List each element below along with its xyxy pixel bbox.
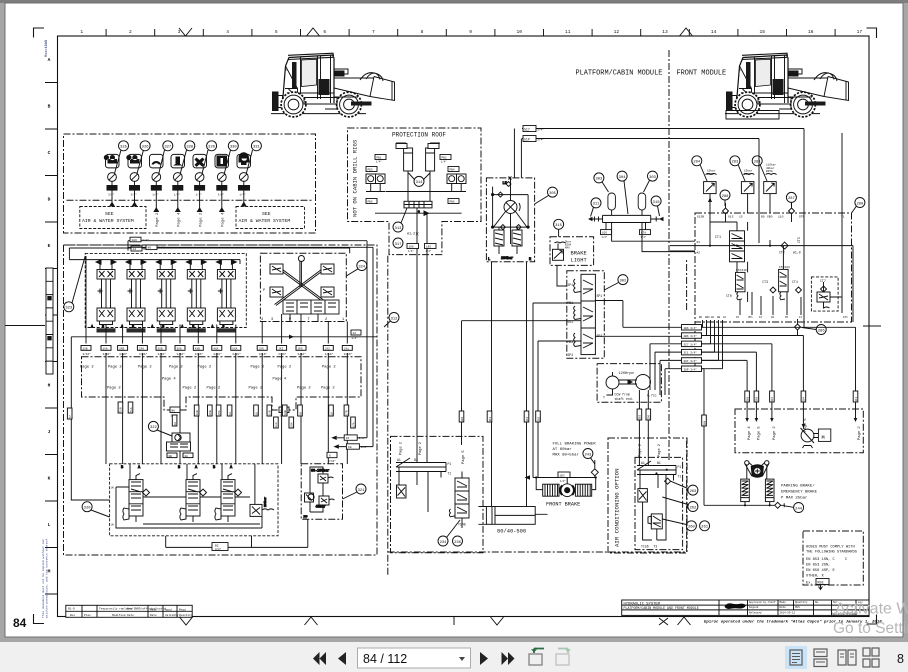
svg-text:G1: G1 [723, 316, 727, 319]
svg-text:305: 305 [756, 396, 759, 401]
svg-text:12: 12 [353, 332, 357, 335]
svg-text:Validity: Validity [165, 613, 179, 617]
svg-text:330: 330 [230, 146, 238, 150]
rotated hose labels column group [67, 402, 355, 428]
svg-text:186: 186 [132, 239, 138, 242]
svg-text:G15: G15 [728, 216, 734, 219]
svg-text:P: P [263, 289, 265, 293]
brake manifold [533, 478, 597, 490]
svg-text:F5Y203: F5Y203 [779, 266, 790, 269]
balloon 323 [64, 256, 85, 312]
balloon 286 with check [802, 325, 826, 335]
svg-text:3/8": 3/8" [108, 193, 115, 197]
balloon 283 [730, 156, 745, 181]
svg-text:AIR & WATER SYSTEM: AIR & WATER SYSTEM [82, 218, 134, 224]
svg-text:Page 2: Page 2 [251, 366, 265, 370]
svg-text:15: 15 [739, 216, 743, 219]
svg-text:2014-09-12: 2014-09-12 [780, 612, 796, 615]
svg-text:284: 284 [693, 161, 701, 165]
svg-text:283: 283 [731, 161, 739, 165]
air conditioning outer dash-dot box [608, 438, 687, 553]
svg-text:P MAX 25bar: P MAX 25bar [781, 496, 808, 501]
svg-text:328: 328 [186, 146, 194, 150]
svg-text:195: 195 [426, 246, 431, 249]
top manifold [396, 458, 446, 512]
balloon 280 [852, 198, 865, 214]
see air & water system right [236, 207, 305, 229]
svg-text:E: E [48, 243, 51, 249]
roof right valve pair [447, 174, 466, 192]
svg-text:11B: 11B [269, 410, 272, 415]
svg-text:Page 5: Page 5 [462, 450, 466, 464]
svg-text:PB4: PB4 [450, 169, 455, 172]
svg-text:84: 84 [13, 616, 27, 630]
svg-text:CT7: CT7 [820, 279, 826, 283]
relief valve 284 [704, 173, 717, 193]
check diamond 243 [591, 460, 598, 478]
svg-text:Date: Date [150, 614, 157, 617]
280 bottom port labels [699, 316, 848, 319]
svg-text:F1: F1 [799, 316, 803, 319]
filter component [397, 485, 407, 498]
balloon 329 [207, 141, 217, 151]
svg-text:325: 325 [120, 146, 128, 150]
svg-text:196: 196 [409, 246, 414, 249]
svg-text:B1: B1 [657, 461, 661, 465]
svg-text:Page 2: Page 2 [773, 426, 777, 440]
svg-text:Page 5: Page 5 [758, 426, 762, 440]
svg-text:CT2: CT2 [779, 251, 785, 255]
coupler circles with slash [108, 173, 249, 182]
svg-text:Signed: Signed [749, 605, 759, 609]
svg-text:C: C [48, 150, 51, 156]
centre registration mark right [863, 325, 881, 327]
svg-text:12B: 12B [196, 410, 199, 415]
balloon 260 [662, 519, 696, 531]
next view icon (disabled) [556, 654, 569, 665]
see air & water system left [80, 207, 146, 229]
svg-text:PLATFORM/CABIN MODULE: PLATFORM/CABIN MODULE [576, 70, 663, 78]
hydraulic motor [801, 428, 815, 448]
svg-text:3/16": 3/16" [328, 459, 336, 463]
svg-text:304: 304 [803, 396, 806, 401]
CT2 check [781, 242, 788, 249]
rear tank body [334, 78, 374, 97]
left margin terminal strip [46, 268, 53, 374]
svg-text:Quantity: Quantity [179, 613, 193, 617]
svg-text:262: 262 [689, 506, 697, 510]
page4 text row [162, 378, 287, 382]
svg-text:Page 2: Page 2 [108, 366, 122, 370]
inner dash-dot box [635, 457, 683, 549]
svg-text:263: 263 [689, 490, 697, 494]
svg-text:84 / 112: 84 / 112 [363, 652, 407, 666]
valve bank dashed box [85, 253, 246, 327]
svg-text:2: 2 [129, 29, 132, 35]
svg-text:8: 8 [421, 29, 424, 35]
280 bottom port drops [702, 292, 802, 369]
balloon 315 [554, 219, 564, 237]
svg-text:3/16": 3/16" [103, 352, 112, 356]
balloon 320 [82, 502, 110, 517]
svg-text:T1: T1 [448, 472, 452, 476]
two page layout icon [838, 650, 856, 665]
svg-text:D: D [48, 197, 51, 203]
svg-text:11A: 11A [275, 422, 278, 427]
balloon 281 [752, 156, 767, 181]
svg-text:GT1: GT1 [843, 316, 848, 319]
svg-text:3/16": 3/16" [298, 352, 307, 356]
valve bank section 1 [91, 260, 116, 333]
accumulator capsule right [638, 193, 646, 210]
page number box [358, 648, 471, 668]
bottom supply line [704, 502, 774, 506]
joystick corner valves [270, 264, 334, 297]
hose label 51P [523, 136, 536, 142]
svg-text:311: 311 [855, 396, 858, 401]
svg-text:3/16": 3/16" [344, 352, 353, 356]
interior wires 280 [670, 222, 842, 302]
corner bracket top-right [867, 28, 877, 38]
280 dash-dot box [695, 213, 852, 368]
valve Y148 [449, 472, 469, 529]
stack of hose labels [682, 325, 702, 372]
svg-text:Page 2: Page 2 [419, 442, 423, 455]
svg-text:PARKING BRAKE/: PARKING BRAKE/ [781, 484, 815, 489]
svg-text:#1: #1 [697, 241, 701, 244]
solenoid valve Y156 [648, 514, 666, 540]
port labels row top [697, 216, 845, 219]
roof hose labels [366, 155, 459, 204]
svg-text:287: 287 [788, 197, 795, 201]
lower valve module 1 [121, 464, 150, 522]
svg-text:FRONT BRAKE: FRONT BRAKE [546, 502, 580, 508]
svg-text:302: 302 [639, 414, 642, 419]
svg-text:8: 8 [897, 652, 904, 666]
balloon 284 [692, 156, 707, 181]
brake feed wires [462, 265, 582, 477]
svg-text:CT1: CT1 [715, 236, 721, 240]
svg-text:1XB: 1XB [83, 347, 88, 350]
left supply drop [71, 337, 377, 500]
svg-text:AT 60bar: AT 60bar [553, 447, 573, 452]
bottom edge marks [180, 617, 193, 625]
svg-text:3/16": 3/16" [119, 352, 128, 356]
svg-text:324: 324 [358, 265, 366, 269]
steering cylinder 80/40-500 [478, 507, 547, 525]
rotated hose labels 302/250 [637, 409, 651, 420]
svg-text:260: 260 [688, 526, 696, 530]
hose label 196 [407, 244, 419, 249]
svg-text:313: 313 [395, 227, 403, 231]
hose label row [81, 346, 353, 356]
vehicle tractor 1 [271, 53, 395, 117]
svg-text:B: B [48, 104, 51, 110]
top ruler ticks [106, 29, 835, 36]
svg-text:3/8": 3/8" [361, 445, 368, 449]
svg-text:B350: B350 [744, 173, 751, 176]
svg-text:1/4": 1/4" [196, 193, 203, 197]
svg-text:GB0: GB0 [767, 216, 773, 219]
svg-text:G15B: G15B [697, 216, 704, 219]
F5Y216 valve [736, 272, 746, 299]
accumulator capsule left [608, 193, 616, 210]
svg-text:F5: F5 [736, 316, 740, 319]
icon area dash-dot box [64, 134, 316, 233]
svg-text:10A: 10A [291, 422, 294, 427]
steering to cylinder wires [492, 262, 527, 507]
svg-text:B351: B351 [707, 173, 714, 176]
balloon 313 [393, 208, 407, 232]
balloon 311 [591, 198, 602, 217]
svg-text:18: 18 [299, 412, 302, 416]
svg-text:17: 17 [857, 29, 863, 35]
svg-text:EN 856 4SP, E: EN 856 4SP, E [806, 569, 836, 573]
hose label 83 [558, 472, 570, 478]
svg-text:16: 16 [808, 29, 814, 35]
svg-text:230bar: 230bar [263, 497, 267, 507]
supply bus lines [69, 248, 349, 264]
svg-text:15B: 15B [209, 410, 212, 415]
svg-text:PB2: PB2 [442, 157, 447, 160]
svg-text:HOSES MUST COMPLY WITH: HOSES MUST COMPLY WITH [806, 546, 855, 550]
svg-text:#2: #2 [697, 252, 701, 255]
fitting 287 [789, 203, 795, 222]
joystick valve dash-dot box [260, 253, 346, 321]
svg-text:326: 326 [142, 146, 150, 150]
front bumper [273, 92, 279, 111]
page2 text row 2 [107, 387, 335, 391]
svg-text:PHS: PHS [795, 606, 800, 609]
relief valve 281 [764, 173, 777, 193]
svg-text:3/16": 3/16" [139, 352, 148, 356]
svg-text:F2: F2 [759, 316, 763, 319]
drop wires [112, 181, 244, 211]
svg-text:EMERGENCY BRAKE: EMERGENCY BRAKE [781, 491, 818, 495]
svg-text:3/8": 3/8" [131, 193, 138, 197]
svg-text:MuackDWN: MuackDWN [44, 40, 49, 57]
svg-text:316: 316 [526, 416, 529, 421]
svg-text:Page 2: Page 2 [249, 387, 263, 391]
top manifold [637, 461, 676, 514]
svg-text:New SNRO/affected/noted: New SNRO/affected/noted [127, 607, 166, 611]
vehicle tractor 2 [725, 53, 849, 117]
svg-text:3/16": 3/16" [83, 352, 92, 356]
lower valve dashed box [110, 464, 278, 536]
M box [818, 429, 830, 441]
svg-text:EN 853 2SN,: EN 853 2SN, [806, 564, 830, 568]
svg-text:JX3: JX3 [278, 347, 283, 350]
svg-text:7: 7 [372, 29, 375, 35]
roof left valve pair [366, 174, 385, 192]
svg-text:Page 2: Page 2 [169, 366, 183, 370]
svg-text:ø1,2)(: ø1,2)( [407, 232, 419, 237]
svg-text:329: 329 [208, 146, 216, 150]
relief drop wires [710, 194, 770, 231]
spring cylinder right [765, 479, 774, 502]
svg-text:1/4": 1/4" [152, 193, 159, 197]
svg-text:16: 16 [255, 412, 258, 416]
svg-text:LIGHT: LIGHT [571, 258, 588, 264]
svg-text:Page 4: Page 4 [162, 378, 176, 382]
roof cylinder left [396, 143, 413, 171]
svg-text:288: 288 [722, 195, 730, 199]
signal icon squares [106, 154, 251, 168]
pump 322 assembly [167, 433, 194, 458]
svg-text:320: 320 [84, 507, 92, 511]
svg-text:PB3: PB3 [368, 169, 373, 172]
svg-text:321: 321 [358, 489, 366, 493]
svg-text:517: 517 [524, 127, 530, 131]
bottom toolbar background [0, 642, 908, 672]
rear cone [370, 77, 395, 101]
svg-text:305: 305 [549, 192, 557, 196]
accumulator manifold [603, 215, 651, 222]
svg-text:3/8": 3/8" [359, 436, 366, 440]
svg-text:MAX 80+5bar: MAX 80+5bar [553, 453, 580, 458]
svg-text:3/8": 3/8" [142, 238, 149, 242]
svg-text:OTHER, X: OTHER, X [806, 575, 824, 579]
97/98 hose labels with arrows [337, 438, 373, 447]
title block small texts [749, 600, 866, 615]
svg-text:307: 307 [771, 396, 774, 401]
left fitting 311 [593, 217, 603, 222]
box below tractor2 cab [726, 111, 779, 120]
lower box internal bus [116, 487, 262, 528]
svg-text:10B: 10B [284, 410, 287, 415]
svg-text:written permission, and the co: written permission, and the contents the… [45, 539, 49, 618]
right fitting 310 [651, 217, 660, 222]
block 321 internals [304, 467, 335, 520]
hose label 078 [640, 230, 651, 235]
revision table [66, 605, 192, 617]
svg-text:MAX: MAX [565, 247, 570, 250]
corner bracket top-left [34, 28, 45, 38]
first page button [313, 652, 326, 665]
balloon 317 [393, 238, 403, 248]
svg-text:303: 303 [595, 178, 603, 182]
svg-text:B359: B359 [766, 170, 773, 173]
svg-text:PB1: PB1 [377, 157, 382, 160]
svg-text:2XB: 2XB [119, 347, 124, 350]
svg-text:Page 2: Page 2 [156, 212, 160, 227]
svg-text:1: 1 [80, 29, 83, 35]
svg-text:T1: T1 [678, 475, 682, 479]
svg-text:Made: Made [780, 600, 787, 604]
box J drain to 82 line [251, 536, 253, 548]
svg-text:Rev: Rev [70, 614, 75, 617]
hose label 12 [351, 330, 361, 335]
svg-text:GB6: GB6 [705, 316, 710, 319]
svg-text:G9: G9 [771, 316, 775, 319]
svg-text:312: 312 [391, 317, 399, 321]
svg-text:JX2: JX2 [325, 347, 330, 350]
svg-text:3C1 3/4": 3C1 3/4" [684, 351, 698, 355]
svg-text:327: 327 [164, 146, 171, 150]
svg-text:Page 2: Page 2 [399, 442, 403, 455]
svg-text:PROTECTION ROOF: PROTECTION ROOF [392, 132, 446, 139]
svg-text:B6: B6 [172, 409, 176, 412]
svg-text:71A: 71A [130, 407, 133, 412]
svg-text:Page 4: Page 4 [273, 378, 287, 382]
svg-text:98: 98 [348, 446, 352, 449]
svg-text:Activate Win: Activate Win [835, 601, 908, 618]
last page button [502, 652, 515, 665]
hose labels (dark) [107, 185, 251, 191]
page2 text row 1 [80, 366, 336, 370]
fitting 288 [723, 203, 729, 222]
cab [283, 55, 335, 103]
rotated hose labels mid [459, 411, 540, 422]
svg-text:10: 10 [516, 29, 522, 35]
balloon 303 left [594, 173, 609, 192]
svg-text:G6: G6 [711, 316, 715, 319]
svg-text:77: 77 [69, 415, 72, 419]
svg-text:200bar: 200bar [501, 256, 513, 261]
svg-text:3: 3 [271, 318, 273, 322]
svg-text:234: 234 [440, 541, 448, 545]
svg-text:1/4": 1/4" [602, 236, 608, 239]
svg-text:Approved by chief: Approved by chief [749, 600, 776, 604]
svg-text:303: 303 [649, 176, 657, 180]
svg-text:3P1: 3P1 [568, 283, 574, 287]
svg-text:12: 12 [614, 29, 620, 35]
svg-text:1/4": 1/4" [441, 161, 447, 164]
svg-text:1200rpm: 1200rpm [619, 371, 634, 376]
svg-text:Y156: Y156 [641, 545, 649, 549]
roof drop wires [417, 249, 427, 463]
svg-text:B6: B6 [699, 316, 703, 319]
roof manifold [375, 171, 462, 244]
bus hose label 14 [131, 246, 142, 251]
centre registration mark left [5, 325, 45, 327]
svg-text:L: L [488, 258, 490, 262]
front wheel [281, 92, 306, 117]
svg-text:Plan: Plan [84, 613, 91, 617]
continuous layout icon [814, 649, 827, 667]
svg-text:80/40-500: 80/40-500 [497, 529, 526, 535]
svg-text:SEE: SEE [262, 211, 271, 217]
svg-text:323: 323 [65, 307, 73, 311]
svg-text:Page 2: Page 2 [199, 212, 203, 227]
rear hoops [360, 73, 383, 81]
svg-text:PB5: PB5 [368, 201, 373, 204]
svg-text:3C7 3/4": 3C7 3/4" [684, 342, 698, 346]
svg-text:1/4": 1/4" [560, 480, 566, 483]
svg-text:110: 110 [778, 216, 784, 219]
svg-text:2: 2 [325, 318, 327, 322]
svg-text:THE FOLLOWING STANDARDS: THE FOLLOWING STANDARDS [806, 551, 858, 555]
svg-text:304: 304 [619, 176, 627, 180]
svg-text:H: H [48, 383, 51, 389]
corner bracket bottom-right [867, 615, 877, 625]
steering block 305 dash-dot box [486, 178, 534, 262]
svg-text:205: 205 [461, 416, 464, 421]
svg-text:15: 15 [759, 29, 765, 35]
svg-text:3XB: 3XB [158, 347, 163, 350]
valve bank drop wires [86, 256, 236, 344]
svg-text:30T 3/4": 30T 3/4" [684, 359, 698, 363]
CT7 sub box [811, 277, 838, 311]
svg-text:281: 281 [754, 161, 762, 165]
notch hose label 90 [279, 407, 289, 413]
svg-text:CT3: CT3 [762, 280, 768, 284]
svg-text:315: 315 [555, 224, 563, 228]
svg-text:STP: STP [799, 216, 805, 219]
top ruler numbers [80, 29, 862, 35]
svg-text:T3: T3 [654, 545, 658, 549]
F5Y203 valve [779, 269, 789, 299]
